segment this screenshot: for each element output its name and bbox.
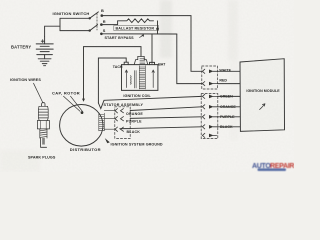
purple wire to module: [217, 116, 239, 118]
green wire run: [98, 96, 201, 108]
wire junction to coil BAT: [151, 34, 153, 63]
module lower connector dashed box: [201, 94, 218, 139]
battery B1 cells: [36, 37, 53, 59]
coil core lines: [134, 71, 136, 89]
terminal R: [100, 19, 106, 26]
ballast resistor R1 zigzag: [127, 19, 154, 23]
ignition wire leader to plug: [34, 83, 44, 103]
black wire: [120, 127, 202, 129]
white wire to module: [217, 70, 239, 72]
coil TACH post: [124, 62, 128, 64]
distributor body circle: [60, 105, 103, 147]
HT lead arrowhead: [82, 99, 85, 102]
spark plug insulator ribs: [38, 106, 48, 120]
ignition module U1 box: [240, 59, 285, 132]
coil BAT post: [150, 62, 155, 64]
orange wire: [130, 107, 201, 111]
orange connector pins: [202, 105, 217, 109]
ballast resistor label box: [114, 25, 159, 30]
start bypass leader arrow: [140, 35, 144, 38]
terminal B: [101, 8, 105, 17]
purple wire: [130, 117, 201, 119]
wire ballast output down: [157, 21, 159, 34]
spark plug electrodes: [41, 138, 47, 147]
module squiggle mark: [260, 104, 266, 110]
wire battery to switch poles: [45, 26, 60, 36]
green connector pins: [202, 94, 217, 98]
start bypass wire from S: [101, 33, 176, 35]
stator wires into box: [104, 111, 115, 130]
junction node coil feed: [156, 28, 159, 31]
module upper connector dashed box: [202, 66, 218, 89]
ground connector pins bottom row: [202, 133, 216, 137]
scan noise overlay: [0, 0, 1, 1]
ignition system ground arrow: [105, 138, 110, 143]
orange wire to module: [217, 106, 239, 108]
stator pickup winding: [99, 113, 105, 131]
spark plug hex body: [37, 121, 49, 129]
stator connector pins: [115, 109, 123, 132]
wire B to WHITE connector: [102, 16, 202, 72]
wire R to ballast resistor: [101, 21, 126, 25]
spark plug threads: [40, 129, 47, 138]
coil secondary winding hatched: [139, 58, 145, 89]
red connector pins: [202, 82, 217, 86]
ground below battery: [38, 59, 51, 66]
black wire to module: [217, 126, 239, 128]
green wire to module: [217, 95, 239, 97]
ignition coil T1 body: [121, 65, 157, 91]
stator connector dashed box: [115, 107, 130, 139]
spark plug P1 terminal: [42, 102, 45, 106]
wire coil TACH to GREEN (module): [98, 58, 126, 103]
HT lead coil tower to distributor: [84, 47, 142, 100]
coil tower: [134, 56, 148, 64]
black connector pins: [202, 125, 217, 129]
paper background: [0, 0, 294, 172]
coil primary up-arrow left: [125, 70, 127, 88]
purple connector pins: [202, 115, 217, 119]
coil up-arrow right: [152, 70, 154, 88]
watermark logo: [252, 163, 294, 171]
rotor center dot: [81, 111, 84, 114]
red wire to module: [217, 83, 239, 85]
ignition switch upper pole and blade: [89, 12, 99, 20]
terminal S: [100, 28, 106, 35]
ignition switch lower pole and blade: [89, 25, 98, 32]
white connector pins: [202, 69, 217, 73]
cap rotor leader lines: [64, 96, 83, 111]
wire junction to RED connector: [177, 34, 202, 84]
coil primary winding squiggle: [130, 76, 132, 85]
switch mechanical linkage (dashed): [96, 14, 98, 31]
battery B1 plus sign: [41, 40, 44, 43]
